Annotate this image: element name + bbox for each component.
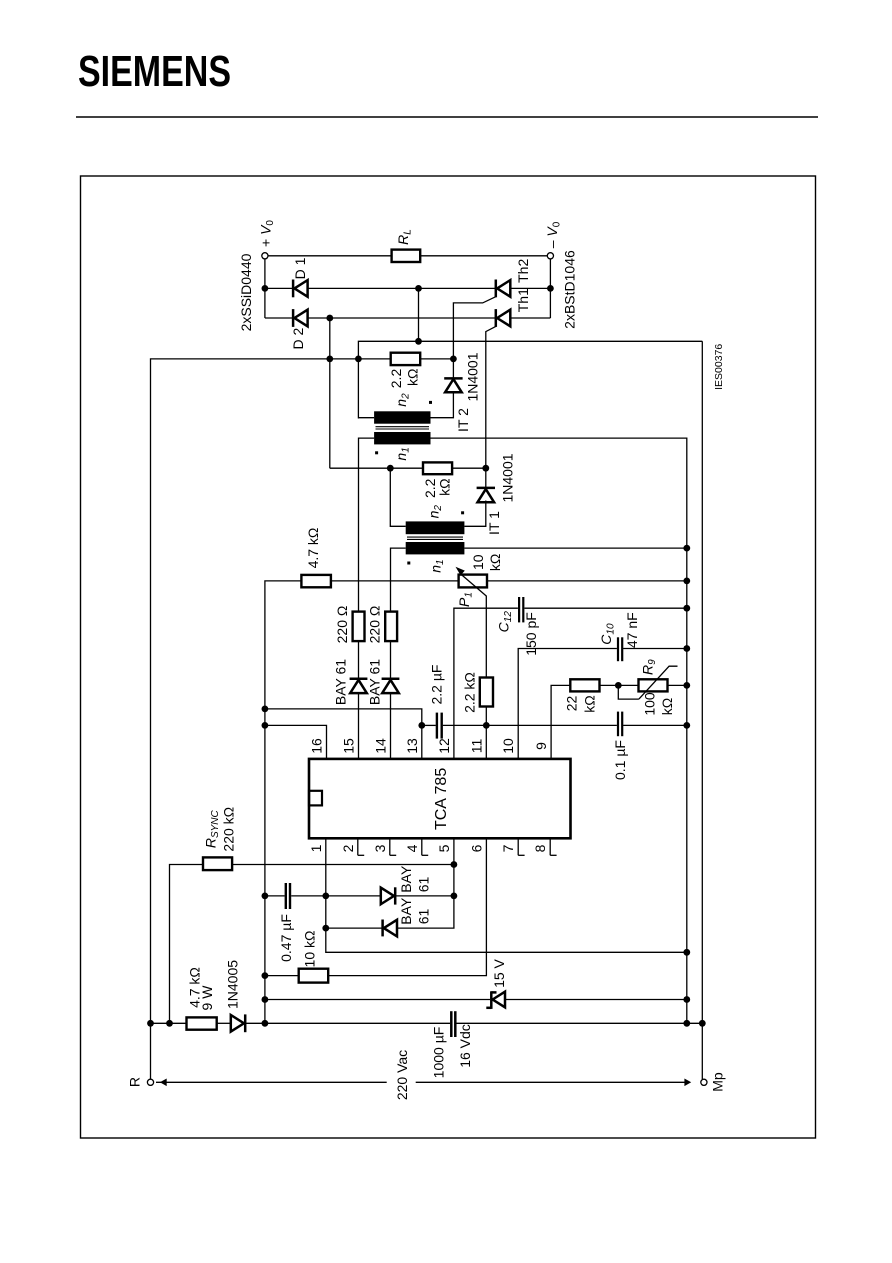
wire: D2 rail middle [307,317,496,319]
svg-text:IT 1: IT 1 [486,511,502,535]
svg-text:0.47 µF: 0.47 µF [278,914,294,962]
220Vac span arrow line [156,1079,691,1087]
wire: Th1 anode to -V0 corner [510,317,551,319]
diode 1N4005 [231,1014,245,1032]
svg-text:22: 22 [564,696,580,712]
junction (686.8,952.3) [683,949,690,956]
junction (453.4,358.9) [450,356,457,363]
junction (329.8,358.9) [326,356,333,363]
junction (150.5,1023.3) [147,1020,154,1027]
junction (453.9,864.5) [451,861,458,868]
wire: D1 cathode vertical down to IT2 rail [418,288,420,341]
capacitor 2.2uF [437,713,442,739]
junction (686.8,580.9) [683,578,690,585]
junction (264.9,1023.3) [262,1020,269,1027]
capacitor C12 [519,597,523,622]
wire: lower BAY61 line left [326,927,384,929]
wire: output rail RL to -V0 [420,255,550,257]
wire: 1N4001 IT1 anode to n2 [464,501,485,527]
polarity dot IT2 n1 [375,451,378,454]
svg-text:D 1: D 1 [292,257,308,279]
svg-text:1000 µF: 1000 µF [431,1027,447,1079]
svg-text:kΩ: kΩ [405,369,421,386]
wire: pin 16 feed [265,725,327,759]
junction (169.5,1023.3) [166,1020,173,1027]
wire: C10 to bus1 [623,648,687,650]
wire: Rsync wire [170,865,204,1024]
wire: rail 4.7k-P1 middle [331,580,459,582]
wire: 2.2k IT2 rail right part [420,358,453,360]
wire: IT1 n1 left terminal down to pin 14 chain [391,548,406,612]
IC U1 TCA785 body [309,759,571,838]
polarity dot IT1 n1 [407,562,410,565]
polarity dot IT1 n2 [461,511,464,514]
svg-text:16: 16 [309,738,325,754]
svg-text:10: 10 [470,554,486,570]
junction (686.8,648.5) [683,645,690,652]
wire: bottom rail right [457,1022,703,1024]
pulse transformer IT1 [406,521,465,554]
svg-text:4: 4 [404,844,420,852]
junction (390.3,468.2) [387,465,394,472]
wire: rail P1 to bus1 [487,580,687,582]
polarity dot IT2 n2 [429,401,432,404]
svg-text:BAY 61: BAY 61 [367,659,383,705]
svg-text:kΩ: kΩ [436,478,452,495]
svg-text:Th2: Th2 [515,259,531,283]
svg-text:BAY 61: BAY 61 [333,659,349,705]
svg-text:8: 8 [532,844,548,852]
wire: 2.2k vertical to pin 11 node [485,707,487,726]
capacitor C10 [618,637,622,661]
wire: IT1 n1 right to bus1 [464,547,686,549]
diode BAY61 pin15 [350,679,368,693]
wire: node rail from left loop to Th2 gate node [151,359,391,1023]
resistor 4.7k 9W [187,1017,217,1029]
junction (686.8,725.4) [683,722,690,729]
wire: Th2 rail to -V0 vertical [510,287,551,289]
terminal +V0 [262,253,268,259]
junction (686.8,999.5) [683,996,690,1003]
junction (686.8,608.2) [683,605,690,612]
svg-text:TCA 785: TCA 785 [433,768,450,830]
wire: pin 5 down [397,838,454,928]
svg-text:220 kΩ: 220 kΩ [220,807,236,852]
svg-text:9: 9 [533,742,549,750]
IC notch [309,791,322,806]
svg-text:Th1: Th1 [515,288,531,312]
wire: IT1 n2 left terminal [390,468,405,526]
svg-text:100: 100 [641,692,657,716]
junction (358.4,358.9) [355,356,362,363]
svg-text:BAY: BAY [398,897,414,925]
wire: D2/Th1 rail [265,317,294,319]
svg-text:kΩ: kΩ [581,695,597,712]
wire: bus2 vertical to Mp [701,341,703,1079]
svg-text:0.1 µF: 0.1 µF [612,740,628,780]
diode BAY61 pin14 [382,679,400,693]
svg-text:14: 14 [373,738,389,754]
svg-text:10 kΩ: 10 kΩ [302,931,318,968]
wire: IT1 2.2k rail left part [330,467,423,469]
resistor 2.2k IT2 [391,353,421,365]
svg-text:R: R [126,1077,142,1087]
diode 1N4001 IT1 [477,488,495,502]
wire: 22k to R9 [600,684,639,686]
svg-text:13: 13 [404,738,420,754]
svg-text:2xBStD1046: 2xBStD1046 [562,250,578,329]
resistor 220R pin14 [385,612,397,642]
wire: pin 12 to C12 [454,608,518,759]
junction (325.8,928.1) [322,925,329,932]
junction (418.5,288.4) [415,285,422,292]
svg-text:16 Vdc: 16 Vdc [457,1024,473,1068]
svg-text:2xSSiD0440: 2xSSiD0440 [238,253,254,331]
svg-text:SIEMENS: SIEMENS [78,47,231,96]
terminal Mp [701,1079,707,1085]
svg-text:kΩ: kΩ [659,698,675,715]
svg-text:4.7 kΩ: 4.7 kΩ [305,528,321,569]
svg-text:5: 5 [436,844,452,852]
junction (453.9,895.9) [451,893,458,900]
diode D1 [293,280,308,298]
wire: upper BAY61 line [265,895,285,897]
resistor Rsync [203,857,232,870]
wire: Th1 gate elbow [486,326,496,487]
wire: pin 13 feed from 265 vertical [265,709,422,759]
capacitor 0.47uF [286,883,290,909]
wire: 2.2uF to pin 11 [443,724,487,726]
wire: -V0 terminal vertical [549,259,551,318]
wire: pin 11 stub [485,725,487,759]
junction (264.9,895.9) [262,893,269,900]
diode D2 [293,309,308,327]
svg-text:11: 11 [468,739,484,754]
wire: pin 10 to C10 [518,649,617,759]
wire: bottom rail left [151,1022,187,1024]
junction (325.8,895.9) [322,893,329,900]
junction (686.8,1023.3) [683,1020,690,1027]
pulse transformer IT2 [374,411,430,444]
wire: P1 wiper to 2.2k vertical [485,596,487,677]
junction (264.9,708.9) [262,706,269,713]
wire: zener rail [265,999,490,1001]
wire: 10k to pin 6 [328,838,486,975]
wire: IT2 top rail to bus2 [358,341,702,418]
zener diode 15V [486,991,505,1009]
junction (264.9,975.6) [262,972,269,979]
resistor 2.2k IT1 [423,462,452,474]
junction (486.3,725.4) [483,722,490,729]
svg-text:47 nF: 47 nF [624,612,640,648]
resistor 2.2k vertical pin11 [480,678,493,707]
resistor 22k [570,679,599,691]
junction (421.8,725.4) [418,722,425,729]
resistor 220R pin15 [353,612,365,642]
resistor R9 [639,679,668,691]
wire: D1 rail middle [307,287,496,289]
junction (686.8,548.1) [683,545,690,552]
svg-text:220 Vac: 220 Vac [394,1050,410,1100]
wire: IT2 n1 right to bus1 [431,438,687,1023]
svg-text:2.2 µF: 2.2 µF [429,665,445,705]
svg-text:3: 3 [372,844,388,852]
svg-text:1N4001: 1N4001 [465,352,481,401]
wire: IT1 2.2k rail right part [452,467,486,469]
resistor RL [392,250,421,262]
potentiometer P1 [459,575,487,588]
junction (264.9,288.4) [262,285,269,292]
svg-text:15: 15 [341,738,357,754]
svg-text:Mp: Mp [710,1072,726,1092]
svg-text:220 Ω: 220 Ω [367,606,383,644]
junction (485.8,468.2) [482,465,489,472]
wire: pin 1 down [326,838,687,952]
wire: C12 to bus1 [525,607,687,609]
wire: pin 11 node rail with 2.2uF [422,724,436,726]
junction (618.3,685.4) [615,682,622,689]
junction (264.9,725.4) [262,722,269,729]
svg-text:61: 61 [415,909,431,925]
wire: IT2 n2 left terminal [358,417,374,419]
junction (702.3,1023.3) [699,1020,706,1027]
wire: output rail +V0 to RL [265,255,392,257]
terminal -V0 [547,253,553,259]
svg-text:12: 12 [436,738,452,754]
wire: pin 9 to 22k [551,685,570,759]
svg-text:15 V: 15 V [491,958,507,987]
resistor 10k [299,969,329,983]
header rule [76,116,818,118]
junction (686.8,685.4) [683,682,690,689]
capacitor 1000uF 16Vdc [451,1011,455,1037]
svg-text:IES00376: IES00376 [713,344,725,390]
wire: R9 to bus1 [668,684,687,686]
terminal R [147,1079,153,1085]
thyristor Th1 [496,309,511,327]
svg-text:7: 7 [500,844,516,852]
schematic border frame [81,176,816,1138]
diode BAY61 lower horizontal [383,920,397,937]
svg-text:6: 6 [468,844,484,852]
wire: pin 11 node to 0.1uF [486,724,617,726]
wire: 0.1uF to bus1 [623,724,687,726]
wire: 1N4001 IT2 anode to n2 [431,392,454,417]
wire: bottom rail mid1 [217,1022,231,1024]
diode BAY61 upper horizontal [381,887,395,904]
junction (550.4,288.4) [547,285,554,292]
svg-text:2.2: 2.2 [388,369,404,389]
potentiometer P1 wiper arrow [456,567,487,597]
wire: Th2 gate elbow [453,297,496,378]
wire: R9 wiper elbow [618,685,639,699]
svg-text:2.2 kΩ: 2.2 kΩ [461,672,477,713]
junction (264.9,999.5) [262,996,269,1003]
resistor R9 adjust diagonal [639,666,678,699]
thyristor Th2 [496,280,511,298]
wire: upper BAY61 line mid [291,895,381,897]
svg-text:1N4001: 1N4001 [500,453,516,502]
wire: zener rail right [505,999,687,1001]
wire: upper BAY61 line right [396,895,454,897]
resistor 4.7k top [301,575,331,587]
svg-text:IT 2: IT 2 [455,408,471,432]
wire: Rsync to pin 5 [232,864,454,866]
wire: D1 rail [265,287,294,289]
svg-text:BAY: BAY [398,865,414,893]
IC pin stubs 2 3 4 7 8 [358,838,557,855]
wire: bottom rail mid2 [246,1022,450,1024]
svg-text:220 Ω: 220 Ω [334,606,350,644]
IC pin stubs top 16 15 14 13 12 11 10 9 short segs inside wires already; pin 14/15 stub from BAY61 [359,641,391,759]
junction (418.5,341.3) [415,338,422,345]
svg-text:10: 10 [500,738,516,754]
svg-text:2: 2 [340,844,356,852]
svg-text:1: 1 [308,844,324,852]
svg-text:9 W: 9 W [199,985,215,1011]
capacitor 0.1uF [618,712,622,737]
wire: 10k pin6 wire [265,975,299,977]
wire: D2 junction vertical down [329,318,331,468]
wire: R terminal vertical [150,1023,152,1079]
junction (329.8,318) [326,315,333,322]
wire: +V0 terminal vertical down to D2 rail [264,259,266,318]
svg-text:D 2: D 2 [290,327,306,349]
wire: IT2 n1 left terminal down to pin 15 chain [359,438,375,611]
wire: main rail 4.7k to P1 [265,581,302,1023]
svg-text:1N4005: 1N4005 [225,960,241,1009]
diode 1N4001 IT2 [444,378,462,392]
svg-text:61: 61 [415,877,431,893]
svg-text:150 pF: 150 pF [523,612,539,656]
svg-text:kΩ: kΩ [487,554,503,571]
